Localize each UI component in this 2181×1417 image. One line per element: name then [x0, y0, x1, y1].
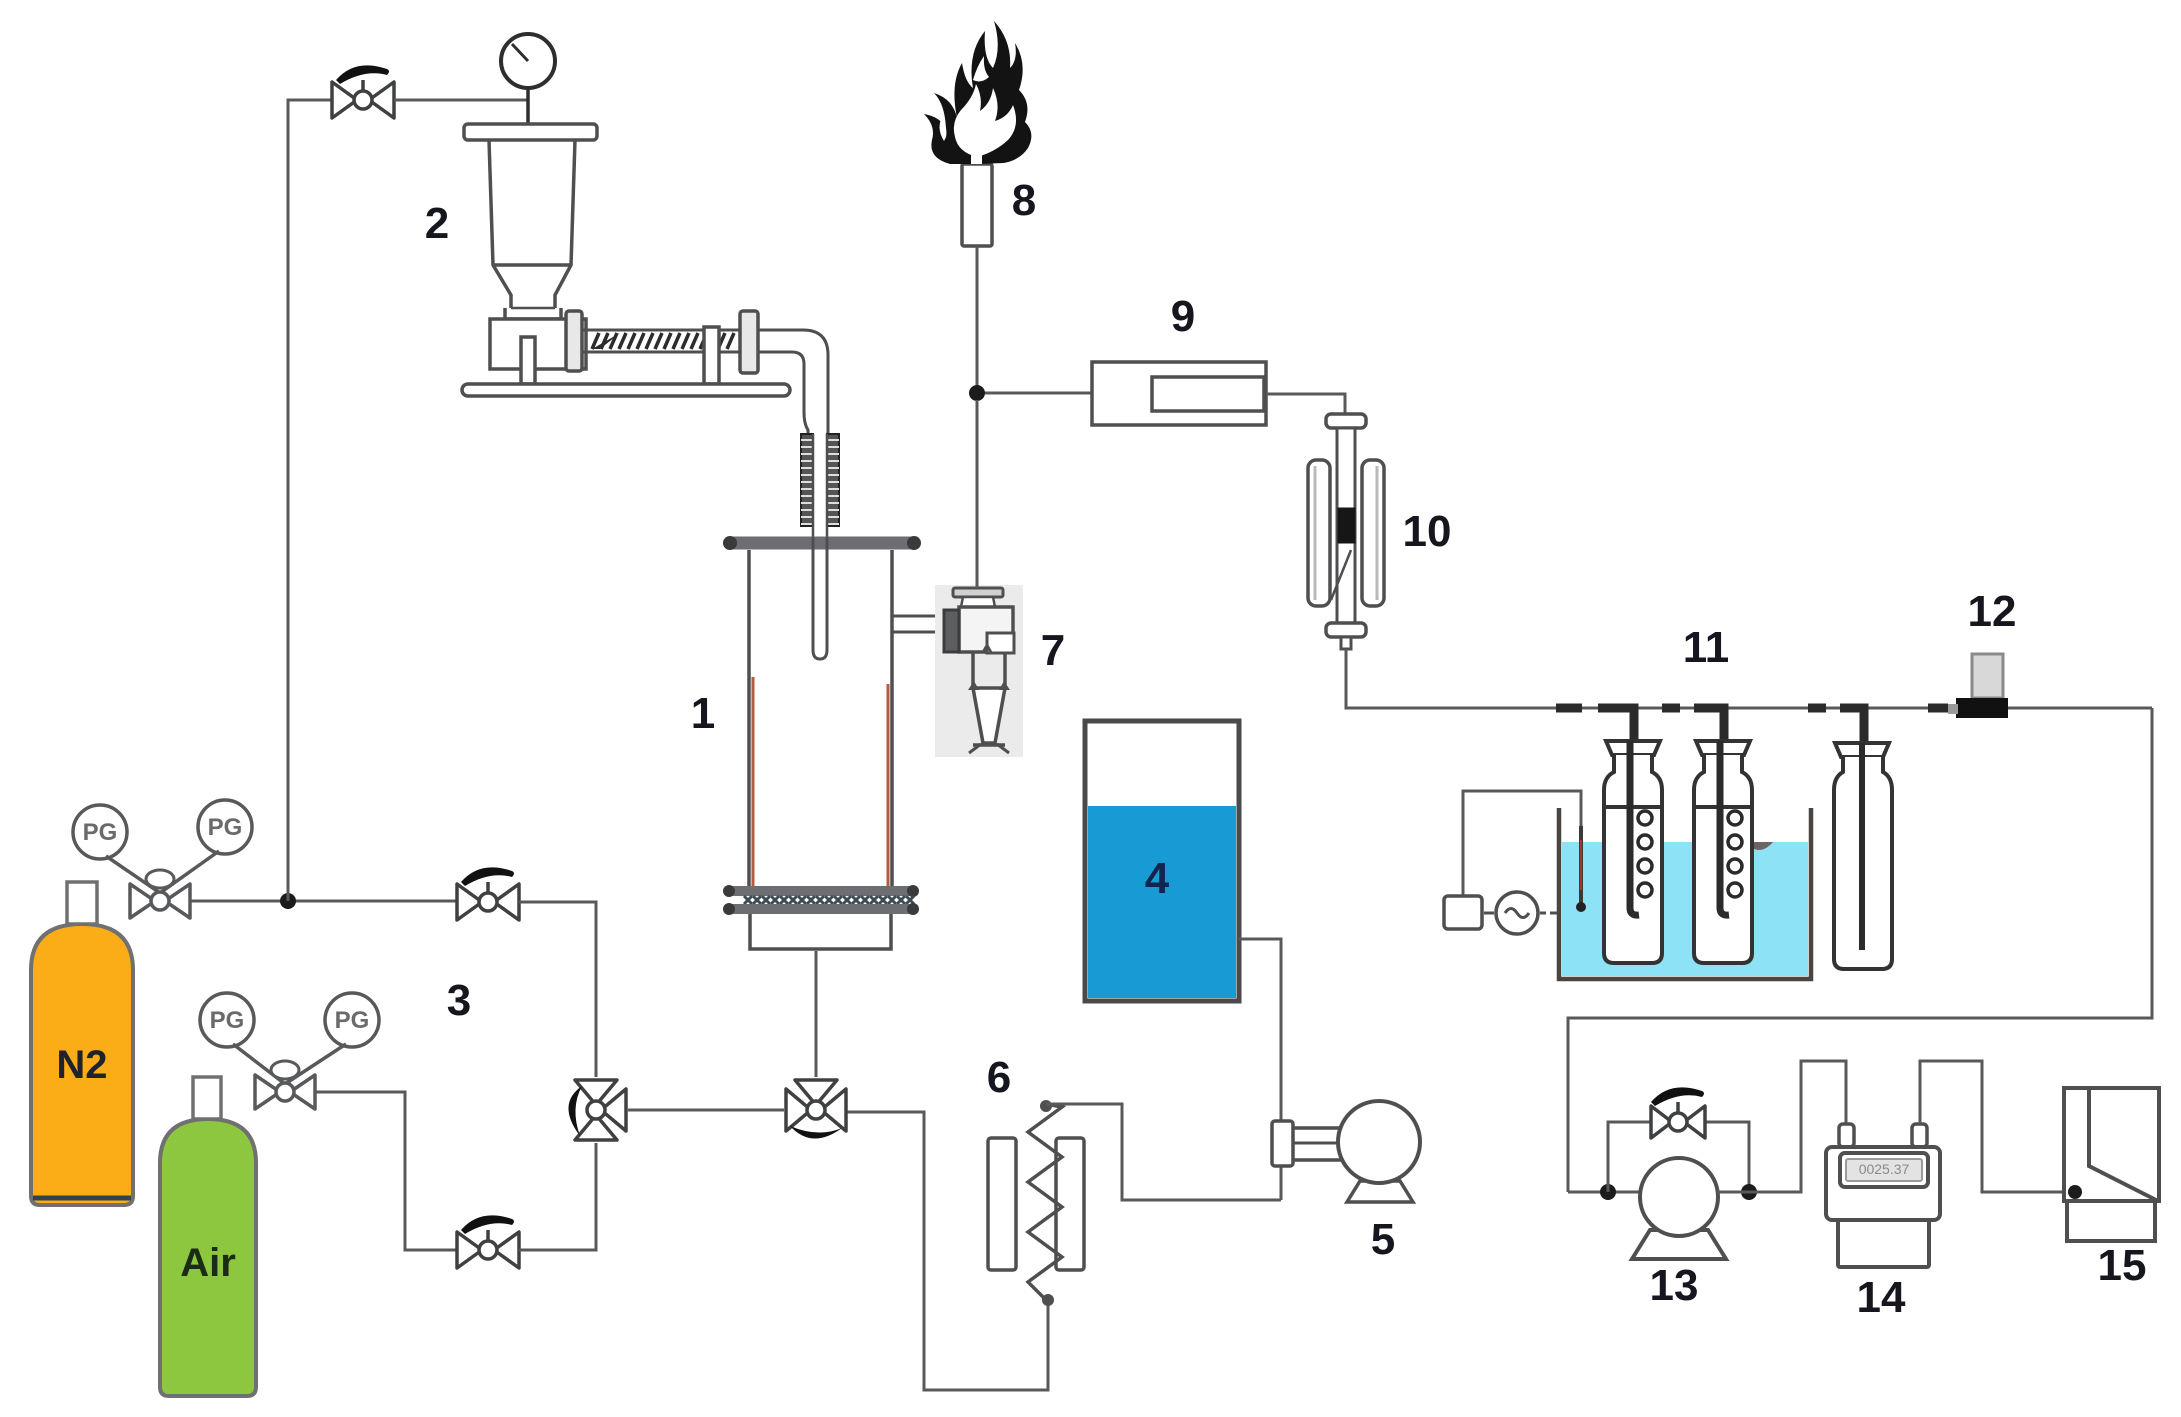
pump 13 [1640, 1158, 1718, 1236]
reactor outlet duct to cyclone [892, 616, 944, 632]
flare flame [924, 21, 1031, 164]
gas meter 14 body [1826, 1147, 1940, 1220]
silica bottle 3 inlet fitting [1808, 708, 1864, 746]
hopper 2 flange [464, 124, 597, 140]
label 11 [1683, 623, 1730, 672]
gas meter 14 nipples [1839, 1124, 1927, 1147]
wire threeway to threeway [628, 1109, 784, 1112]
label 5 [1371, 1215, 1395, 1264]
reactor plenum [750, 914, 891, 949]
wire meter to analyzer [1920, 1061, 2064, 1192]
wire pump to meter [1717, 1061, 1846, 1192]
reactor feed tube [813, 537, 827, 659]
wire air valve to threeway [519, 1143, 596, 1250]
cyclone 7 shadow [935, 585, 1023, 757]
pressure gauge on hopper [501, 34, 555, 126]
svg-text:8: 8 [1012, 176, 1036, 225]
svg-text:3: 3 [447, 976, 471, 1025]
flare stack [962, 164, 992, 246]
label 4 [1145, 854, 1170, 903]
impinger bottle 2 [1694, 741, 1752, 963]
node analyzer inlet [2068, 1185, 2082, 1199]
feeder base plate [462, 384, 790, 396]
N2 cylinder neck [67, 882, 97, 924]
pump 5 base [1347, 1181, 1413, 1202]
label 12 [1968, 587, 2017, 636]
valve N2 line [457, 867, 519, 920]
svg-text:PG: PG [335, 1007, 370, 1034]
svg-text:11: 11 [1683, 623, 1730, 672]
HX 6 coil [1028, 1100, 1062, 1306]
cyclone 7 [944, 588, 1014, 753]
PG gauge Air high [325, 993, 379, 1047]
wire return line right [1568, 708, 2152, 1192]
filter 10 heater right [1362, 460, 1384, 606]
Air gas cylinder [160, 1119, 256, 1396]
pump 5 casing [1293, 1128, 1378, 1160]
reactor distributor plate [723, 885, 919, 915]
wire 10 to impinger line [1346, 649, 1600, 708]
svg-text:PG: PG [210, 1007, 245, 1034]
wire tank to pump [1239, 939, 1281, 1200]
PG gauge N2 high [198, 800, 252, 854]
label 13 [1650, 1261, 1699, 1310]
wire valve to HX [846, 1112, 1048, 1390]
pump 13 base [1632, 1230, 1726, 1259]
label 8 [1012, 176, 1036, 225]
HX 6 plates [988, 1138, 1084, 1270]
wire plenum to three-way valve [815, 951, 818, 1077]
thermostat circulator [1484, 892, 1557, 934]
svg-text:4: 4 [1145, 854, 1170, 903]
label 10 [1403, 507, 1452, 556]
wire impinger manifold [1600, 707, 2152, 710]
screw feeder flange left [566, 311, 582, 371]
screw helix [592, 333, 734, 349]
gas meter 14 display [1840, 1153, 1928, 1187]
svg-text:7: 7 [1041, 626, 1065, 675]
svg-text:14: 14 [1857, 1273, 1906, 1322]
screw feeder leg [521, 337, 535, 384]
reactor 1 lid [723, 536, 921, 550]
Air regulator valve [233, 1044, 346, 1109]
svg-text:12: 12 [1968, 587, 2017, 636]
N2 regulator valve [106, 851, 219, 918]
PG gauge N2 low [73, 805, 127, 859]
label 6 [987, 1053, 1011, 1102]
wire flare stack to junction [976, 246, 979, 390]
node pump outlet [1741, 1184, 1757, 1200]
wire junction up to purge line [288, 100, 332, 901]
wire 9 to filter 10 [1266, 394, 1345, 414]
svg-text:9: 9 [1171, 292, 1195, 341]
wire Air outlet [315, 1092, 456, 1250]
gas meter 14 lower box [1838, 1220, 1929, 1267]
valve Air line [457, 1215, 519, 1268]
wire to pump 13 [1568, 1191, 1641, 1194]
water tank 4 [1085, 721, 1239, 1001]
wire valve to threeway [519, 902, 596, 1077]
screw feeder flange right [740, 311, 758, 373]
svg-text:N2: N2 [56, 1043, 107, 1087]
gas analyzer 15 [2064, 1088, 2159, 1241]
label 2 [425, 199, 449, 248]
svg-text:6: 6 [987, 1053, 1011, 1102]
pump 5 inlet flange [1272, 1121, 1293, 1166]
svg-text:2: 2 [425, 199, 449, 248]
silica gel bottle 3 [1834, 743, 1892, 969]
thermostat box [1444, 896, 1482, 929]
valve purge line [332, 65, 394, 118]
gas sampling port 12 [1948, 654, 2008, 718]
feed drop pipe [758, 330, 828, 434]
svg-text:1: 1 [691, 689, 715, 738]
label 3 [447, 976, 471, 1025]
bath tank walls [1559, 808, 1811, 979]
feed pipe heating coil [801, 434, 839, 537]
wire valve to gauge stem [394, 99, 528, 102]
screw tube [582, 330, 740, 352]
label 15 [2098, 1241, 2147, 1290]
label 1 [691, 689, 715, 738]
wire cyclone to flare junction [976, 400, 979, 588]
filter 10 heater left [1308, 460, 1330, 606]
svg-text:13: 13 [1650, 1261, 1699, 1310]
impinger bottle 2 inlet fitting [1662, 708, 1724, 744]
screw support flange [704, 327, 719, 384]
svg-text:PG: PG [83, 819, 118, 846]
svg-text:PG: PG [208, 814, 243, 841]
impinger bottle 1 inlet fitting [1556, 708, 1634, 744]
PG gauge Air low [200, 993, 254, 1047]
svg-text:10: 10 [1403, 507, 1452, 556]
svg-text:0025.37: 0025.37 [1859, 1161, 1910, 1177]
label 14 [1857, 1273, 1906, 1322]
bath water [1562, 842, 1808, 976]
bath thermometer [1576, 826, 1586, 912]
wire junction down [976, 400, 979, 588]
svg-text:15: 15 [2098, 1241, 2147, 1290]
node pump inlet [1600, 1184, 1616, 1200]
label 9 [1171, 292, 1195, 341]
svg-text:Air: Air [180, 1241, 236, 1285]
screw feeder housing [490, 319, 586, 369]
N2 gas cylinder [31, 924, 133, 1205]
valve bypass [1651, 1087, 1705, 1138]
pump 13 bypass [1608, 1122, 1749, 1192]
node N2 junction [280, 893, 296, 909]
svg-text:5: 5 [1371, 1215, 1395, 1264]
wire HX to pump circuit [1046, 1104, 1281, 1200]
wire N2 outlet to junction [190, 900, 456, 903]
reactor 1 heated zone red lines [753, 677, 888, 886]
hopper 2 body [489, 140, 575, 319]
condenser 9 [1092, 362, 1266, 425]
node flare junction [969, 385, 985, 401]
thermostat wire [1463, 791, 1581, 896]
impinger bottle 1 [1604, 741, 1662, 963]
three-way valve mixing [568, 1080, 626, 1140]
wire junction to condenser 9 [985, 392, 1092, 395]
reactor 1 walls [749, 550, 892, 886]
three-way valve reactor [786, 1080, 846, 1139]
label 7 [1041, 626, 1065, 675]
Air cylinder neck [193, 1077, 221, 1119]
pump 5 [1338, 1101, 1420, 1183]
filter 10 tube [1326, 414, 1366, 649]
